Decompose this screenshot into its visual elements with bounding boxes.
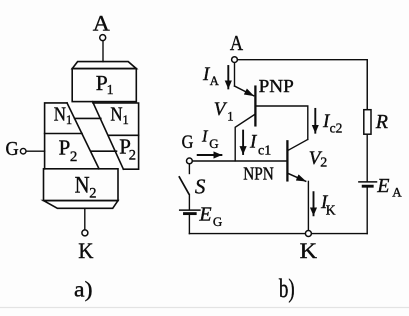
svg-text:E: E — [376, 175, 389, 197]
battery EA plate + — [359, 181, 377, 183]
label IG — [201, 127, 219, 151]
label S — [195, 175, 206, 199]
svg-text:I: I — [201, 127, 209, 146]
switch S blade — [179, 177, 189, 194]
svg-text:N: N — [110, 104, 122, 125]
battery EA plate - — [363, 185, 372, 188]
svg-text:K: K — [78, 238, 94, 263]
svg-text:K: K — [326, 203, 336, 218]
node K junction (b) — [305, 231, 311, 237]
wire G to P2 — [26, 150, 44, 152]
svg-text:A: A — [392, 185, 402, 200]
region N2 — [44, 169, 119, 201]
region P2 left label — [59, 135, 78, 165]
diagonal split line 1 — [67, 103, 99, 169]
region P2 right label — [119, 134, 136, 163]
svg-text:PNP: PNP — [259, 76, 294, 96]
wire A to V1 emitter — [234, 63, 236, 86]
svg-text:E: E — [198, 204, 211, 226]
label Ic2 — [322, 111, 342, 135]
svg-text:c2: c2 — [330, 120, 343, 135]
wire A to right branch — [238, 60, 368, 110]
svg-text:P: P — [59, 135, 71, 159]
svg-text:2: 2 — [320, 155, 327, 170]
transistor V2 base bar — [286, 141, 288, 180]
region P1 — [72, 69, 136, 102]
svg-text:V: V — [214, 99, 228, 120]
svg-text:N: N — [75, 173, 90, 198]
wire G down to switch — [188, 164, 190, 174]
svg-text:2: 2 — [70, 149, 78, 165]
wire G to V2 base — [192, 160, 287, 162]
svg-text:A: A — [230, 31, 244, 55]
collector of V2 — [288, 139, 308, 150]
collector of V1 — [235, 114, 255, 161]
svg-text:G: G — [182, 133, 194, 153]
current arrow Ic1 — [242, 131, 244, 154]
node A (a) — [93, 11, 110, 36]
N1/P2 divider left — [45, 133, 82, 135]
emitter of V2 (arrow out) — [288, 173, 306, 181]
faint page rule at bottom — [0, 307, 409, 309]
label NPN — [243, 164, 273, 184]
label V1 — [214, 99, 234, 124]
svg-text:2: 2 — [89, 185, 96, 201]
svg-text:G: G — [6, 139, 19, 160]
svg-text:N: N — [54, 104, 66, 125]
svg-text:A: A — [93, 11, 110, 36]
region N1 right label — [110, 104, 128, 127]
label EA — [376, 175, 402, 199]
battery EG plate - — [185, 212, 196, 215]
caption b) — [279, 274, 295, 303]
label R — [375, 111, 388, 133]
wire A to P1 — [102, 41, 104, 62]
region N2 bottom lid — [44, 201, 119, 209]
svg-text:NPN: NPN — [243, 164, 273, 184]
caption a) — [74, 276, 93, 301]
current arrow Ic2 — [314, 109, 316, 133]
terminal A (b) — [232, 57, 238, 63]
svg-text:1: 1 — [107, 83, 114, 98]
svg-text:A: A — [210, 74, 219, 88]
region P1 top lid — [72, 62, 136, 69]
node A (b) — [230, 31, 244, 55]
current arrow IK — [313, 192, 315, 215]
node G (b) — [182, 133, 194, 153]
wire right branch to R — [366, 60, 368, 110]
svg-text:c1: c1 — [258, 144, 271, 159]
node K (a) — [78, 238, 94, 263]
diagonal split line 2 — [93, 102, 124, 170]
svg-text:I: I — [249, 132, 258, 153]
svg-text:a): a) — [74, 276, 93, 301]
wire EA to bottom rail — [366, 188, 368, 234]
terminal G (b) — [187, 158, 193, 164]
label V2 — [309, 148, 327, 170]
terminal A (a) — [100, 35, 106, 41]
label PNP — [259, 76, 294, 96]
svg-text:2: 2 — [129, 148, 136, 164]
wire switch to EG — [188, 195, 190, 210]
wire N2 to K — [84, 208, 86, 230]
svg-text:1: 1 — [123, 113, 129, 127]
wire R to EA — [366, 134, 368, 181]
label Ic1 — [249, 132, 271, 159]
transistor V1 base bar — [254, 87, 256, 126]
node K label (b) — [300, 238, 318, 263]
svg-text:b): b) — [279, 274, 295, 303]
wire V2 emitter to K — [307, 181, 309, 230]
label IA — [202, 64, 219, 88]
middle right box — [93, 103, 139, 169]
label IK — [320, 192, 336, 218]
node G (a) — [6, 139, 19, 160]
battery EG plate + — [180, 209, 200, 211]
terminal G (a) — [20, 148, 26, 154]
P2 junction line between diagonals — [91, 150, 117, 152]
middle left box — [45, 103, 67, 169]
N1/P2 divider right — [109, 134, 139, 136]
svg-text:G: G — [213, 214, 222, 229]
current arrow IA — [227, 66, 229, 88]
current arrow IG — [198, 154, 222, 156]
wire EG to bottom rail — [188, 215, 190, 234]
terminal K (a) — [82, 230, 88, 236]
emitter of V1 (arrow into base) — [235, 86, 254, 96]
svg-text:1: 1 — [66, 113, 72, 127]
bottom rail wire — [189, 233, 367, 235]
N1 junction line between diagonals — [75, 117, 101, 119]
svg-text:1: 1 — [227, 110, 233, 124]
label EG — [198, 204, 222, 229]
region N1 left label — [54, 104, 72, 127]
svg-text:S: S — [195, 175, 206, 199]
svg-text:K: K — [300, 238, 318, 263]
wire V1 base to V2 collector — [255, 106, 307, 139]
svg-text:G: G — [209, 136, 218, 151]
svg-text:R: R — [375, 111, 388, 133]
resistor R — [364, 110, 371, 135]
